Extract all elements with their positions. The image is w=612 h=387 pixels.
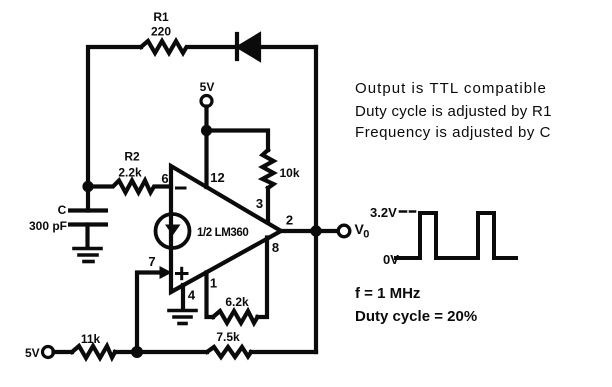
current source symbol inside U1 bbox=[156, 214, 190, 248]
svg-text:2.2k: 2.2k bbox=[118, 166, 142, 180]
svg-text:3.2V: 3.2V bbox=[370, 205, 397, 220]
pin label 12 bbox=[210, 170, 224, 185]
note duty cycle bbox=[355, 308, 477, 325]
wire left rail to capacitor bbox=[86, 187, 90, 211]
svg-text:4: 4 bbox=[188, 288, 196, 303]
label R1 bbox=[153, 10, 169, 24]
label 11k bbox=[81, 332, 101, 346]
diode D1 body bbox=[239, 35, 259, 59]
label 300 pF bbox=[29, 219, 67, 233]
wire 11k to node bbox=[115, 350, 207, 354]
plus input sign bbox=[177, 268, 188, 278]
node bottom junction bbox=[131, 346, 143, 358]
waveform pulse train bbox=[396, 213, 516, 258]
svg-text:Frequency is adjusted by C: Frequency is adjusted by C bbox=[355, 124, 551, 141]
svg-text:Duty cycle is adjusted by R1: Duty cycle is adjusted by R1 bbox=[355, 103, 552, 120]
wire top-left horizontal from left rail to R1 bbox=[88, 47, 141, 187]
diode D1 cathode bar bbox=[235, 34, 239, 59]
node supply junction bbox=[201, 125, 212, 136]
wire diode to top-right corner bbox=[259, 45, 316, 49]
svg-text:5V: 5V bbox=[200, 80, 215, 94]
svg-text:11k: 11k bbox=[81, 332, 101, 346]
5V supply terminal top bbox=[200, 80, 215, 94]
terminal circle 5V bottom bbox=[43, 347, 54, 358]
svg-text:1/2 LM360: 1/2 LM360 bbox=[197, 227, 248, 239]
resistor 11k bbox=[72, 346, 115, 358]
wire node to 10k branch bbox=[207, 131, 269, 151]
dashed level marker bbox=[400, 210, 415, 213]
svg-text:7.5k: 7.5k bbox=[216, 330, 240, 344]
wire 7.5k to right rail bbox=[251, 350, 316, 354]
pin label 1 bbox=[210, 276, 217, 291]
svg-text:300 pF: 300 pF bbox=[29, 219, 67, 233]
resistor R2 bbox=[88, 181, 171, 193]
output wire pin 2 bbox=[281, 229, 338, 233]
note f = 1 MHz bbox=[355, 285, 420, 302]
pin label 6 bbox=[161, 171, 168, 186]
label 7.5k bbox=[216, 330, 240, 344]
node A junction C/R2 bbox=[82, 181, 93, 192]
label 10k bbox=[279, 166, 299, 180]
svg-text:3: 3 bbox=[256, 196, 263, 211]
arrowhead into pin 7 bbox=[160, 266, 173, 279]
wire 10k to pin 3 bbox=[266, 188, 270, 221]
pin label 2 bbox=[286, 213, 293, 228]
ground below U1 bbox=[169, 311, 196, 324]
label VO bbox=[355, 221, 370, 241]
node output junction bbox=[310, 225, 321, 236]
svg-text:10k: 10k bbox=[279, 166, 299, 180]
svg-text:C: C bbox=[58, 203, 67, 217]
resistor R1 bbox=[141, 41, 237, 53]
svg-text:6: 6 bbox=[161, 171, 168, 186]
svg-text:8: 8 bbox=[272, 240, 279, 255]
label 0V bbox=[383, 252, 399, 267]
svg-text:7: 7 bbox=[148, 254, 155, 269]
current source arrow bbox=[165, 225, 181, 236]
wire capacitor to ground bbox=[85, 225, 89, 248]
label 3.2V bbox=[370, 205, 397, 220]
pin label 7 bbox=[148, 254, 155, 269]
note line 3 bbox=[355, 124, 551, 141]
wire right rail vertical bbox=[314, 47, 318, 352]
svg-text:1: 1 bbox=[210, 276, 217, 291]
capacitor C bottom plate bbox=[68, 222, 108, 226]
label R2 bbox=[124, 150, 140, 164]
wire pin 4 to ground bbox=[181, 285, 185, 309]
terminal circle VO bbox=[338, 225, 350, 237]
capacitor C top plate bbox=[68, 208, 108, 212]
svg-text:f = 1 MHz: f = 1 MHz bbox=[355, 285, 420, 302]
op-amp U1 1/2 LM360 triangle bbox=[171, 166, 281, 292]
svg-text:6.2k: 6.2k bbox=[225, 295, 249, 309]
svg-text:0: 0 bbox=[363, 229, 369, 241]
wire 6.2k to pin 8 bbox=[258, 238, 268, 318]
svg-text:5V: 5V bbox=[25, 346, 40, 360]
pin label 8 bbox=[272, 240, 279, 255]
label 2.2k bbox=[118, 166, 142, 180]
pin label 4 bbox=[188, 288, 196, 303]
resistor 10k bbox=[263, 150, 274, 188]
wire pin 12 from supply node bbox=[204, 131, 208, 188]
svg-text:220: 220 bbox=[151, 25, 171, 39]
svg-text:R1: R1 bbox=[153, 10, 169, 24]
svg-text:R2: R2 bbox=[124, 150, 140, 164]
terminal circle 5V top bbox=[201, 96, 212, 107]
svg-text:2: 2 bbox=[286, 213, 293, 228]
note line 2 bbox=[355, 103, 552, 120]
wire pin 7 input bbox=[137, 273, 160, 353]
resistor 7.5k bbox=[207, 347, 251, 357]
svg-text:Duty cycle = 20%: Duty cycle = 20% bbox=[355, 308, 477, 325]
resistor 6.2k bbox=[213, 311, 258, 323]
label 220 bbox=[151, 25, 171, 39]
label 1/2 LM360 bbox=[197, 227, 248, 239]
pin label 3 bbox=[256, 196, 263, 211]
label 6.2k bbox=[225, 295, 249, 309]
note line 1 bbox=[355, 80, 547, 97]
label C bbox=[58, 203, 67, 217]
wire 5V terminal to 11k bbox=[54, 350, 73, 354]
svg-text:12: 12 bbox=[210, 170, 224, 185]
ground below C bbox=[74, 249, 101, 262]
minus input sign bbox=[177, 187, 186, 190]
wire pin 1 down bbox=[207, 273, 214, 318]
wire 5V to node bbox=[204, 107, 208, 131]
svg-text:Output is TTL compatible: Output is TTL compatible bbox=[355, 80, 547, 97]
label 5V bottom bbox=[25, 346, 40, 360]
